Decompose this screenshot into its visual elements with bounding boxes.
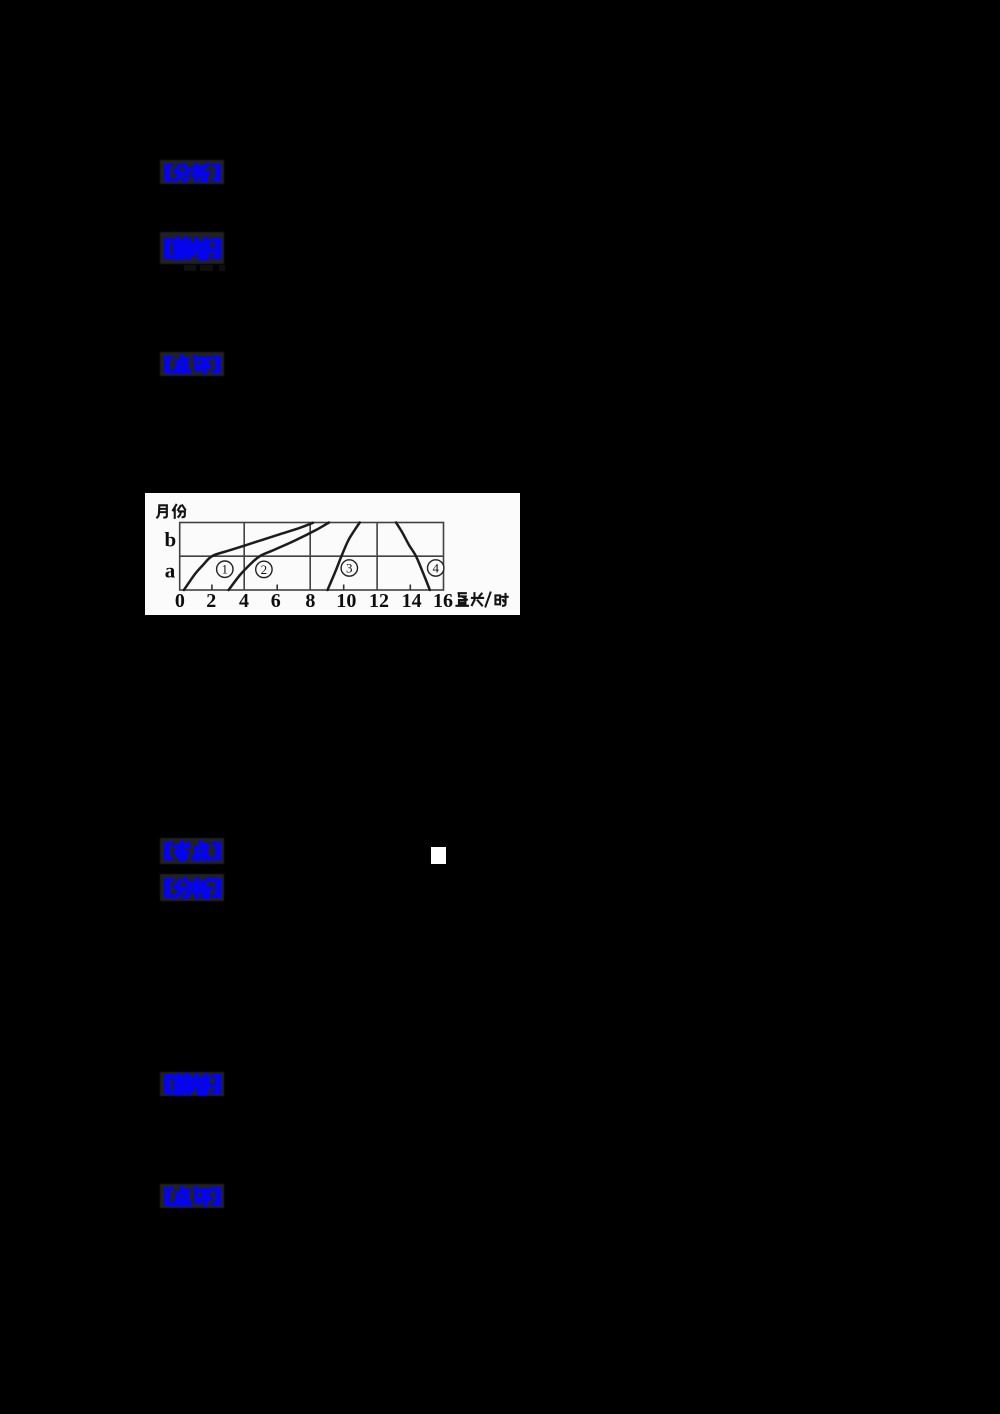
- curve 2: [229, 523, 329, 591]
- svg-text:a: a: [165, 559, 176, 583]
- label jieda 2: [160, 1072, 224, 1096]
- vertical gridline 12: [376, 523, 378, 591]
- svg-text:4: 4: [239, 590, 249, 612]
- svg-text:4: 4: [432, 560, 439, 575]
- label dianping 2: [160, 1184, 224, 1208]
- svg-text:16: 16: [433, 590, 453, 612]
- svg-text:2: 2: [206, 590, 216, 612]
- svg-text:12: 12: [369, 590, 389, 612]
- svg-text:3: 3: [346, 560, 353, 575]
- faint remnant row under jieda1: [184, 265, 196, 271]
- svg-text:1: 1: [222, 562, 229, 577]
- svg-text:b: b: [164, 528, 176, 552]
- circled 2: [256, 561, 272, 577]
- svg-text:14: 14: [402, 590, 422, 612]
- label fenxi 1: [160, 160, 224, 184]
- svg-text:6: 6: [271, 590, 281, 612]
- x axis numbers: [175, 590, 453, 612]
- white answer square: [431, 847, 446, 864]
- svg-text:8: 8: [305, 590, 315, 612]
- yuefen axis title: [157, 505, 185, 518]
- white background: [145, 493, 520, 615]
- curve 1: [184, 523, 313, 590]
- svg-text:0: 0: [175, 590, 185, 612]
- shared glyph defs: [0, 0, 1, 1]
- curve 3: [328, 523, 360, 591]
- middle gridline: [180, 555, 444, 557]
- circled 1: [217, 561, 233, 577]
- svg-text:10: 10: [336, 590, 356, 612]
- zhouchang/shi axis title: [456, 593, 507, 607]
- label jieda 1: [160, 232, 224, 264]
- label dianping 1: [160, 352, 224, 376]
- vertical gridline 8: [309, 523, 311, 591]
- vertical gridline 4: [243, 523, 245, 591]
- label fenxi 2: [160, 874, 224, 901]
- label kaodian: [160, 838, 224, 864]
- axis ticks: [212, 585, 410, 591]
- plot frame: [180, 523, 444, 591]
- chart figure: [145, 493, 520, 615]
- circled 4: [428, 560, 444, 576]
- curve 4: [396, 523, 430, 591]
- circled 3: [341, 560, 357, 576]
- svg-text:2: 2: [261, 562, 268, 577]
